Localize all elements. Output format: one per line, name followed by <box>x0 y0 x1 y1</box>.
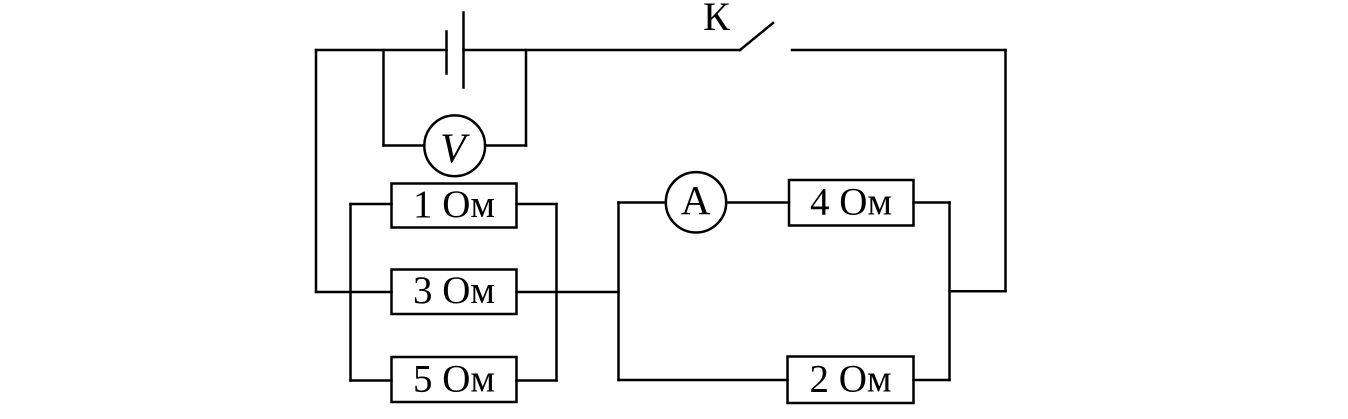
wire row2 right lead to middle section <box>517 291 619 294</box>
wire right outer vertical <box>1004 50 1007 291</box>
wire row1 right lead <box>517 203 557 206</box>
resistor 3 Om box <box>392 270 517 315</box>
resistor 4 Om box <box>789 180 914 226</box>
wire bottom branch left lead <box>619 379 788 382</box>
svg-text:А: А <box>681 177 711 223</box>
wire 2 Om right lead <box>914 379 950 382</box>
wire row3 left lead <box>351 379 392 382</box>
wire row3 right lead <box>517 379 557 382</box>
wire middle section left bus <box>617 203 620 381</box>
ammeter A circle <box>666 172 726 232</box>
wire 4 Om right lead <box>914 201 950 204</box>
resistor 5 Om box <box>392 357 517 402</box>
svg-text:3 Ом: 3 Ом <box>413 269 495 312</box>
resistor 2 Om box <box>788 357 914 404</box>
wire switch to top-right corner <box>792 49 1006 52</box>
svg-text:V: V <box>440 127 470 173</box>
wire top-left segment (left corner to battery) <box>316 49 447 52</box>
voltmeter V circle <box>424 115 485 176</box>
wire row1 left lead <box>351 203 392 206</box>
wire left outer vertical <box>315 50 318 292</box>
wire voltmeter left lead <box>384 144 425 147</box>
wire voltmeter loop left vertical <box>382 50 385 146</box>
wire ammeter to 4 Om <box>726 201 789 204</box>
battery (long positive plate) <box>462 13 465 88</box>
wire battery to switch hinge <box>464 49 741 52</box>
wire right mid link to inner bus <box>950 290 1006 293</box>
wire left bank right bus <box>555 204 558 381</box>
resistor 1 Om box <box>392 184 517 228</box>
wire voltmeter right lead <box>485 144 526 147</box>
battery (short negative plate) <box>445 32 448 74</box>
switch K blade (open) <box>740 23 773 50</box>
wire left bank left bus <box>349 204 352 381</box>
svg-text:2 Ом: 2 Ом <box>809 358 891 401</box>
wire ammeter left lead <box>619 201 666 204</box>
svg-text:5 Ом: 5 Ом <box>413 358 495 401</box>
svg-text:1 Ом: 1 Ом <box>413 183 495 226</box>
wire left outer to resistor bank (row 2 left) <box>316 291 392 294</box>
wire voltmeter loop right vertical <box>525 50 528 146</box>
svg-text:К: К <box>703 0 730 39</box>
svg-text:4 Ом: 4 Ом <box>810 181 892 224</box>
wire middle section right bus <box>948 203 951 381</box>
